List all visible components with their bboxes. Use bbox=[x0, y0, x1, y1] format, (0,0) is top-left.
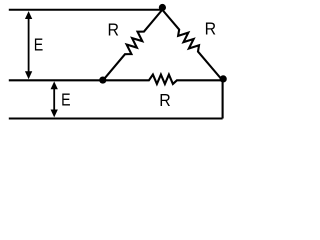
node left (middle-left junction) bbox=[99, 76, 106, 83]
resistor R (left diagonal) bbox=[103, 10, 162, 81]
svg-text:E: E bbox=[61, 91, 70, 110]
svg-text:E: E bbox=[34, 36, 43, 55]
wire middle rail bbox=[9, 79, 103, 81]
svg-text:R: R bbox=[159, 91, 170, 111]
resistor R (bottom horizontal) bbox=[103, 75, 223, 84]
arrow E1 (double-headed, between top and middle rails) bbox=[25, 11, 32, 79]
wire right riser bbox=[222, 81, 224, 119]
node apex (top junction) bbox=[159, 4, 166, 11]
svg-text:R: R bbox=[205, 19, 216, 39]
resistor R (right diagonal) bbox=[162, 10, 222, 81]
wire bottom rail bbox=[9, 117, 223, 119]
node right (middle-right junction) bbox=[220, 75, 227, 82]
wire top rail bbox=[9, 9, 163, 11]
svg-text:R: R bbox=[108, 20, 119, 40]
arrow E2 (double-headed, between middle and bottom rails) bbox=[51, 81, 58, 117]
